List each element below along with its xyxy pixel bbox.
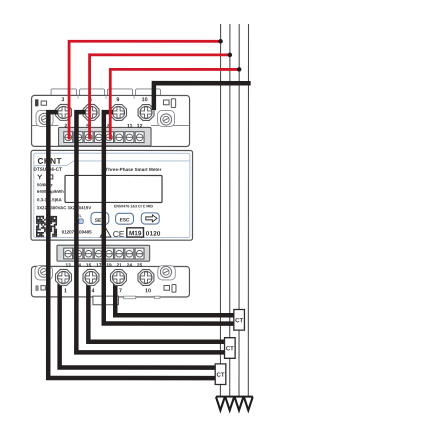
ESC button [116, 213, 134, 224]
indicator icon bottom-left [35, 285, 38, 291]
arrow button [141, 213, 159, 224]
meter top cover tabs [51, 89, 161, 97]
svg-text:CT: CT [226, 346, 234, 352]
DIN rail clip [93, 296, 119, 305]
seal screw bottom-left [38, 266, 49, 277]
current transformer CT3 on L1 [215, 364, 226, 385]
warning triangle [100, 228, 111, 237]
svg-text:6400imp/kWh: 6400imp/kWh [37, 189, 64, 194]
svg-text:11: 11 [127, 123, 133, 129]
CT secondary wire from terminal 7 to CT1 [115, 279, 234, 315]
phase bus bar L3 [238, 24, 240, 397]
CT secondary wire from terminal 4 to CT2 [88, 279, 224, 342]
logo tag line [34, 161, 190, 166]
screw terminal 7 [111, 269, 127, 285]
voltage tap wire Ub to terminal 5 [90, 55, 230, 140]
svg-text:3X220/380VAC 3X240/415V: 3X220/380VAC 3X240/415V [37, 205, 92, 210]
svg-text:21: 21 [117, 263, 123, 268]
CT secondary wire from terminal 6 to CT2 [76, 112, 224, 352]
svg-text:M19: M19 [129, 230, 142, 237]
data matrix code [36, 216, 57, 237]
seal screw top-right [160, 114, 171, 125]
voltage tap wire Uc to terminal 8 [110, 69, 239, 139]
svg-text:12: 12 [137, 123, 143, 129]
MID M19 box [127, 228, 144, 237]
svg-text:13: 13 [66, 263, 72, 268]
class symbol box [49, 175, 53, 179]
svg-text:ESC: ESC [120, 217, 130, 223]
screw terminal 1 [56, 269, 72, 285]
CT secondary wire from terminal 9 to CT1 [104, 112, 234, 323]
indicator icon top-left [35, 99, 38, 106]
top cover seam [32, 124, 59, 126]
clamp terminals 13..25 bottom row [64, 248, 73, 259]
seal boss bottom-left [35, 266, 53, 280]
wye connection symbol [38, 175, 42, 180]
top terminal strip [59, 127, 152, 146]
svg-text:0120: 0120 [146, 231, 161, 238]
svg-text:CT: CT [217, 373, 225, 379]
screw terminal 3 [56, 104, 72, 120]
ground electrode 3 [235, 397, 244, 410]
voltage tap wire Ua to terminal 2 [69, 41, 221, 139]
svg-text:2: 2 [64, 123, 67, 129]
svg-text:25: 25 [137, 263, 143, 268]
ground electrode 1 [216, 397, 225, 410]
junction dot Ub on L2 [228, 53, 233, 58]
svg-text:CT: CT [235, 318, 243, 324]
cover bay ticks [77, 95, 79, 99]
svg-text:17: 17 [96, 263, 102, 268]
seal screw top-left [39, 113, 50, 124]
screw terminal 6 [83, 104, 99, 120]
svg-text:9: 9 [116, 97, 119, 103]
seal boss top-right [158, 110, 175, 126]
screw terminal 4 [83, 269, 99, 285]
indicator icon top-right [163, 100, 169, 105]
screw terminal 10 top [138, 105, 154, 121]
comm indicator [79, 219, 83, 224]
meter bottom terminal cover [31, 266, 189, 297]
screw terminal 10 bottom [138, 270, 154, 286]
LCD display [65, 175, 162, 202]
meter top terminal cover [32, 95, 190, 146]
current transformer CT2 on L2 [225, 338, 236, 359]
svg-text:16: 16 [86, 263, 92, 268]
CT secondary wire from terminal 3 to CT3 [48, 112, 215, 378]
label inner border [34, 153, 190, 237]
meter body [31, 150, 193, 240]
neutral bus bar N [247, 24, 249, 397]
seal screw bottom-right [160, 266, 171, 277]
seal boss bottom-right [158, 266, 176, 280]
current transformer CT1 on L3 [234, 310, 245, 331]
ground electrode 4 [244, 397, 253, 410]
junction dot Uc on L3 [237, 67, 242, 72]
ground electrode 2 [225, 397, 234, 410]
screw terminal number labels 3 6 9 10 [61, 97, 147, 103]
screw terminal number labels 1 4 7 10 [64, 288, 151, 294]
svg-text:4: 4 [91, 288, 94, 294]
svg-text:7: 7 [119, 288, 122, 294]
ground bus [216, 396, 253, 398]
svg-text:1: 1 [64, 288, 67, 294]
clamp terminals 1..12 top row [64, 132, 73, 143]
svg-text:3: 3 [61, 97, 64, 103]
svg-text:EN50470-1&3 CI C MID: EN50470-1&3 CI C MID [114, 204, 153, 208]
svg-text:Three-Phase Smart Meter: Three-Phase Smart Meter [105, 167, 161, 172]
SET button [91, 212, 109, 224]
junction dot Ua on L1 [218, 39, 223, 44]
screw terminal 9 [111, 104, 127, 120]
svg-text:24: 24 [127, 263, 133, 268]
svg-text:10: 10 [145, 288, 151, 294]
svg-text:CE: CE [113, 229, 125, 239]
bottom terminal strip [57, 245, 150, 261]
CT secondary wire from terminal 1 to CT3 [60, 279, 216, 368]
svg-text:10: 10 [142, 97, 148, 103]
svg-text:19: 19 [106, 263, 112, 268]
indicator icon bottom-right [164, 285, 170, 290]
terminal number labels 2 5 8 11 12 [64, 123, 142, 129]
phase bus bar L1 [219, 24, 221, 397]
seal boss top-left [36, 110, 53, 126]
phase bus bar L2 [229, 24, 231, 397]
terminal number labels 13 14 16 17 19 21 24 25 [66, 263, 143, 268]
neutral wire N to terminal 10 [152, 83, 251, 110]
